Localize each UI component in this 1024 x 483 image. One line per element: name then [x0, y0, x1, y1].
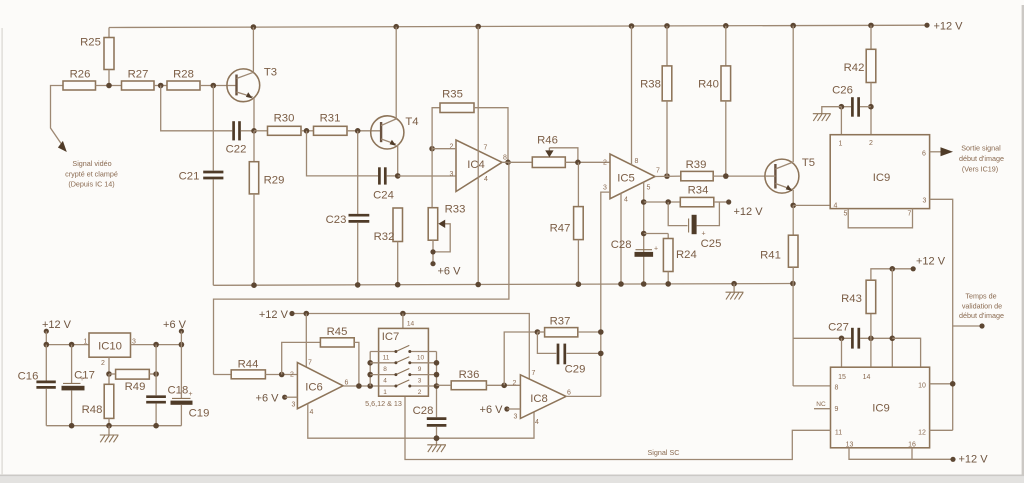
wire IC9b pin11 signal SC	[405, 396, 831, 459]
svg-text:2: 2	[513, 380, 517, 387]
wire IC10 ground rail	[46, 423, 181, 429]
wire IC10 right rail	[131, 342, 185, 348]
svg-text:R44: R44	[238, 359, 259, 371]
IC U IC7 analog switches	[379, 328, 429, 396]
wire T3 collector	[252, 27, 254, 72]
svg-text:IC8: IC8	[530, 393, 548, 405]
wire IC5 pin8	[631, 26, 633, 165]
wire T4 collector	[395, 27, 397, 119]
wire R30R31 node to C24	[307, 131, 379, 176]
svg-text:R32: R32	[374, 231, 395, 243]
capacitor C21	[179, 171, 224, 286]
svg-text:(Depuis IC 14): (Depuis IC 14)	[68, 179, 114, 188]
node top rail junction R38	[664, 23, 670, 29]
svg-text:+12 V: +12 V	[42, 319, 72, 331]
svg-text:3: 3	[514, 414, 518, 421]
svg-text:début d'image: début d'image	[959, 311, 1004, 320]
svg-text:T5: T5	[802, 157, 815, 169]
wire C24 to IC4 pin3	[398, 175, 456, 177]
wire C21 branch	[212, 86, 214, 171]
wire feedback line top	[214, 162, 509, 374]
IC U IC9 first monostable	[830, 135, 929, 218]
svg-text:R47: R47	[550, 223, 571, 235]
svg-text:+12 V: +12 V	[734, 206, 764, 218]
svg-text:C28: C28	[611, 239, 632, 251]
capacitor C23	[326, 131, 370, 285]
wire T5 emitter	[792, 190, 794, 205]
svg-text:14: 14	[407, 321, 415, 328]
svg-text:crypté et clampé: crypté et clampé	[65, 169, 118, 178]
wire ground rail bottom	[213, 284, 793, 286]
capacitor C29	[537, 332, 600, 376]
resistor R31	[314, 113, 382, 136]
svg-text:5: 5	[844, 211, 848, 218]
op-amp IC6	[290, 360, 349, 417]
resistor R28	[167, 69, 237, 91]
resistor R34	[680, 185, 728, 207]
svg-text:3: 3	[450, 171, 454, 178]
node +6V terminal R33	[430, 261, 461, 277]
svg-text:T3: T3	[264, 67, 277, 79]
node top rail junction R42	[868, 23, 874, 29]
svg-text:R34: R34	[688, 185, 709, 197]
svg-text:R35: R35	[442, 89, 463, 101]
switch row1 pins 11 10	[370, 345, 436, 361]
svg-text:8: 8	[383, 366, 387, 373]
wire IC9 pin3 to right bus	[930, 199, 953, 430]
svg-text:6: 6	[922, 151, 926, 158]
capacitor C25	[668, 202, 721, 250]
svg-text:C19: C19	[189, 408, 210, 420]
node top rail junction IC5 pin8	[629, 23, 635, 29]
resistor R27	[122, 69, 168, 91]
node +12V top terminal	[924, 21, 963, 33]
wire IC7 left bus	[367, 352, 373, 387]
svg-text:R28: R28	[173, 69, 194, 81]
svg-text:C25: C25	[701, 238, 722, 250]
svg-text:R43: R43	[841, 293, 862, 305]
node C28 bottom line	[434, 435, 440, 441]
capacitor C24	[373, 167, 398, 201]
node C24 T4 emitter	[395, 173, 401, 179]
node rail C23	[355, 282, 361, 288]
svg-text:11: 11	[383, 355, 390, 362]
wire IC6 pin4 bottom line	[308, 404, 534, 439]
node rail IC5 pin4	[618, 281, 624, 287]
svg-text:14: 14	[863, 374, 871, 381]
svg-text:7: 7	[656, 168, 660, 175]
resistor R37	[537, 316, 600, 337]
resistor R29	[249, 131, 284, 285]
svg-text:R31: R31	[320, 113, 341, 125]
wire IC4 power pins 7 4	[477, 27, 479, 285]
node rail R47	[576, 281, 582, 287]
resistor R25	[80, 28, 114, 86]
svg-text:4: 4	[310, 409, 314, 416]
svg-text:C18: C18	[168, 385, 189, 397]
resistor R44	[214, 359, 298, 379]
svg-text:IC9: IC9	[873, 172, 891, 184]
svg-text:3: 3	[603, 185, 607, 192]
node +6V terminal IC6	[256, 393, 298, 405]
svg-text:3: 3	[923, 198, 927, 205]
capacitor C28 upper	[611, 239, 658, 257]
svg-text:IC10: IC10	[98, 341, 122, 353]
svg-text:validation de: validation de	[962, 301, 1002, 310]
wire R41 ground branch to C27 pin8	[793, 284, 851, 386]
IC U IC9 second monostable	[831, 367, 930, 448]
node rail ground stub	[731, 281, 737, 287]
svg-text:NC: NC	[816, 401, 826, 408]
wire +12V top rail	[109, 25, 927, 27]
node top rail junction R40	[723, 23, 729, 29]
node IC6 out R45	[356, 383, 362, 389]
resistor R48	[82, 374, 114, 426]
svg-text:R40: R40	[698, 79, 719, 91]
svg-text:Sortie signal: Sortie signal	[961, 144, 1001, 153]
node top rail junction T3	[251, 24, 257, 30]
resistor R39	[681, 159, 765, 181]
node top rail junction T4	[393, 24, 399, 30]
switch row4 pins 1 2	[383, 380, 436, 396]
svg-text:1: 1	[839, 141, 843, 148]
svg-text:1: 1	[383, 389, 387, 396]
capacitor C19	[171, 345, 210, 426]
capacitor C16	[18, 345, 56, 426]
svg-text:C28: C28	[413, 405, 434, 417]
node Temps terminal	[953, 292, 1004, 329]
wire IC9b pin12	[930, 429, 953, 431]
svg-text:C17: C17	[74, 370, 95, 382]
svg-text:2: 2	[869, 140, 873, 147]
node R33 bottom	[430, 249, 435, 254]
svg-text:R46: R46	[537, 135, 558, 147]
node IC6 pin2 R44 R45	[279, 372, 285, 378]
transistor T4	[371, 116, 419, 149]
node R39 R40 T5 base	[723, 173, 729, 179]
svg-text:C16: C16	[18, 371, 39, 383]
wire IC5 pin3 net	[601, 192, 610, 396]
capacitor C17	[62, 345, 95, 426]
node R31 T4 base C23	[355, 128, 361, 134]
node rail R41	[790, 281, 796, 287]
potentiometer R46	[532, 135, 610, 168]
node +6V terminal IC8	[480, 404, 521, 416]
svg-text:8: 8	[635, 158, 639, 165]
svg-text:4: 4	[535, 419, 539, 426]
node R49 C18	[153, 345, 159, 377]
svg-text:R48: R48	[82, 404, 103, 416]
svg-text:+12 V: +12 V	[959, 454, 989, 466]
svg-text:IC5: IC5	[617, 173, 635, 185]
svg-text:4: 4	[383, 378, 387, 385]
svg-text:R49: R49	[125, 381, 146, 393]
resistor R32	[374, 208, 403, 285]
node R42 C26	[868, 104, 874, 110]
capacitor C27	[828, 322, 920, 349]
svg-text:Signal vidéo: Signal vidéo	[72, 159, 111, 168]
IC U IC10 regulator	[84, 333, 137, 367]
resistor R24	[663, 234, 696, 284]
node R36 IC8 pin2	[501, 383, 507, 389]
svg-text:4: 4	[834, 203, 838, 210]
capacitor C22	[226, 121, 254, 155]
wire T5 collector	[792, 26, 794, 162]
node IC6 out left bus	[367, 383, 373, 389]
wire IC9b pin10	[930, 381, 956, 387]
transistor T3	[227, 67, 277, 102]
wire T3 emitter	[253, 97, 255, 131]
node bottom line C28 junction	[434, 435, 440, 441]
svg-text:R45: R45	[327, 326, 348, 338]
capacitor C18	[146, 374, 188, 426]
svg-text:+: +	[189, 391, 193, 398]
svg-text:11: 11	[835, 430, 842, 437]
svg-text:7: 7	[532, 370, 536, 377]
svg-text:IC6: IC6	[305, 382, 323, 394]
svg-text:15: 15	[838, 374, 846, 381]
wire IC5 pin5	[643, 182, 645, 284]
wire IC10 pin2	[106, 357, 112, 377]
svg-text:IC9: IC9	[872, 403, 890, 415]
svg-text:R24: R24	[676, 249, 697, 261]
op-amp IC4	[450, 140, 508, 192]
node T5 emitter R41 IC9 pin4	[790, 203, 830, 209]
svg-text:5: 5	[647, 185, 651, 192]
node C26 IC9 pin1	[839, 104, 845, 135]
svg-text:+6 V: +6 V	[480, 404, 504, 416]
svg-text:2: 2	[290, 372, 294, 379]
transistor T5	[765, 157, 815, 193]
svg-text:T4: T4	[405, 116, 418, 128]
ground symbol C26	[813, 107, 842, 121]
op-amp IC8	[513, 370, 572, 426]
resistor R30	[254, 113, 314, 136]
svg-text:7: 7	[484, 145, 488, 152]
svg-text:Signal SC: Signal SC	[648, 448, 680, 457]
svg-text:3: 3	[292, 402, 296, 409]
svg-text:2: 2	[418, 389, 422, 396]
label IC7 control pins	[365, 399, 402, 408]
svg-text:+6 V: +6 V	[438, 266, 462, 278]
node mid rail IC7 pin14	[400, 311, 414, 329]
resistor R38	[640, 26, 672, 176]
svg-text:R41: R41	[760, 250, 781, 262]
resistor R49	[109, 369, 156, 393]
svg-text:C24: C24	[373, 190, 394, 202]
node rail R29	[251, 282, 257, 288]
svg-text:R37: R37	[550, 316, 571, 328]
wire IC8 feedback vertical	[504, 332, 537, 385]
wire +12V terminal IC10	[42, 319, 72, 345]
wire IC10 left rail	[44, 342, 90, 348]
node IC5 pin5 R34	[641, 199, 680, 205]
wire +12V mid rail	[259, 309, 529, 379]
node +12V terminal IC9b	[911, 256, 946, 272]
svg-text:R42: R42	[844, 62, 865, 74]
svg-text:8: 8	[835, 385, 839, 392]
svg-text:2: 2	[603, 160, 607, 167]
node R46 R47 IC5 pin2	[575, 160, 581, 166]
node C29 right	[598, 351, 604, 357]
resistor R26	[63, 69, 122, 91]
node +12V drop IC9b	[890, 266, 896, 367]
node IC4 output	[502, 160, 532, 166]
op-amp IC5	[603, 154, 660, 204]
node R30 R31 C24	[304, 128, 310, 134]
node T3 emitter C22 R29 R30	[251, 128, 257, 134]
svg-text:R27: R27	[128, 69, 149, 81]
wire IC6 output row	[343, 385, 396, 387]
wire IC9b pins13 16 +12V	[849, 448, 988, 466]
wire R27R28 to C22	[161, 86, 233, 131]
resistor R40	[698, 26, 730, 176]
svg-text:+12 V: +12 V	[916, 256, 946, 268]
svg-text:R25: R25	[80, 37, 101, 49]
wire T4 emitter	[397, 145, 399, 176]
svg-text:Temps de: Temps de	[965, 292, 996, 301]
svg-text:R30: R30	[274, 113, 295, 125]
svg-text:12: 12	[918, 430, 926, 437]
wire input row	[51, 86, 65, 148]
svg-text:9: 9	[418, 366, 422, 373]
node +12V terminal R34	[726, 199, 763, 218]
node IC5 output R38 R39	[655, 173, 681, 179]
node R37 left	[535, 329, 541, 335]
potentiometer R33	[428, 149, 465, 264]
node rail C28	[641, 281, 647, 287]
resistor R35 feedback	[432, 89, 508, 163]
node R26 R27 R25	[106, 83, 112, 89]
svg-text:7: 7	[908, 211, 912, 218]
svg-text:2: 2	[450, 144, 454, 151]
switch row3 pins 4 3	[370, 369, 436, 385]
node R28 T3 base	[211, 83, 217, 89]
resistor R45	[282, 326, 359, 386]
svg-text:7: 7	[308, 360, 312, 367]
svg-text:3: 3	[418, 378, 422, 385]
svg-text:C21: C21	[179, 171, 200, 183]
svg-text:(Vers IC19): (Vers IC19)	[962, 165, 998, 174]
node +6V terminal IC10	[163, 319, 187, 345]
svg-text:2: 2	[101, 360, 105, 367]
node R34 left C25	[665, 199, 671, 205]
ground symbol C28	[427, 438, 446, 452]
svg-text:C26: C26	[832, 85, 853, 97]
svg-text:+: +	[702, 231, 706, 238]
svg-text:C27: C27	[828, 322, 849, 334]
svg-text:+6 V: +6 V	[163, 319, 187, 331]
svg-text:R36: R36	[459, 369, 480, 381]
svg-text:IC4: IC4	[467, 159, 485, 171]
svg-text:1: 1	[84, 338, 88, 345]
svg-text:16: 16	[908, 442, 916, 449]
ground symbol IC10	[100, 426, 119, 443]
svg-text:R26: R26	[70, 69, 91, 81]
svg-text:10: 10	[918, 383, 926, 390]
pin NC stub	[814, 401, 831, 409]
svg-text:+6 V: +6 V	[256, 393, 280, 405]
wire IC8 output	[566, 395, 601, 397]
node pin5 C28 R24	[641, 231, 668, 237]
node top rail junction IC4 pin7	[475, 24, 481, 30]
node rail IC4 power	[475, 282, 481, 288]
svg-text:+12 V: +12 V	[259, 309, 289, 321]
capacitor C28 lower	[413, 405, 447, 438]
svg-text:IC7: IC7	[382, 331, 400, 343]
node +12V drop corner	[890, 336, 921, 368]
svg-text:4: 4	[624, 197, 628, 204]
node mid rail IC6 pin7	[304, 311, 310, 367]
node rail R32	[395, 282, 401, 288]
svg-text:début d'image: début d'image	[959, 154, 1004, 163]
node top rail junction T5	[790, 23, 796, 29]
resistor R47	[550, 162, 584, 284]
svg-text:C23: C23	[326, 214, 347, 226]
ground symbol mid	[726, 284, 744, 300]
svg-text:6: 6	[567, 390, 571, 397]
resistor R36	[437, 369, 521, 390]
resistor R43	[841, 269, 913, 339]
wire IC9 pins 5 7 strap	[848, 209, 912, 228]
node R27 R28	[158, 83, 164, 89]
svg-text:R38: R38	[640, 79, 661, 91]
svg-text:9: 9	[835, 406, 839, 413]
svg-text:C22: C22	[226, 144, 247, 156]
input arrow Signal video	[58, 141, 118, 188]
svg-text:R39: R39	[686, 159, 707, 171]
capacitor C26	[832, 85, 871, 117]
resistor R42	[844, 25, 876, 134]
svg-text:4: 4	[484, 176, 488, 183]
switch row2 pins 8 9	[370, 357, 436, 373]
svg-text:5,6,12 & 13: 5,6,12 & 13	[365, 399, 402, 408]
node rail R24	[665, 281, 671, 287]
resistor R41	[760, 205, 798, 283]
output arrow Sortie signal	[930, 144, 1004, 174]
svg-text:C29: C29	[565, 364, 586, 376]
svg-text:10: 10	[417, 355, 425, 362]
node R37 right	[598, 329, 604, 335]
svg-text:R33: R33	[445, 204, 466, 216]
svg-text:+12 V: +12 V	[933, 21, 963, 33]
node C27 right R43 pin14	[868, 336, 874, 368]
node C27 left pin15	[839, 336, 845, 368]
svg-text:R29: R29	[264, 175, 285, 187]
node IC4 pin2 R35 R33	[429, 146, 456, 152]
svg-text:+: +	[654, 246, 658, 253]
svg-text:13: 13	[846, 442, 854, 449]
wire IC7 right bus	[434, 352, 440, 418]
wire IC5 pin4	[620, 193, 622, 284]
